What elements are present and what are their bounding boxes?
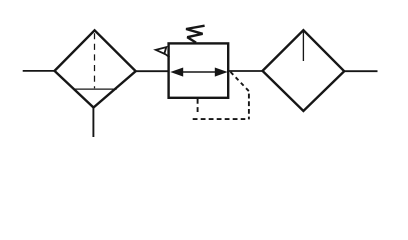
- wire outlet: [344, 70, 377, 72]
- pilot line bottom horizontal segment (dashed): [193, 118, 246, 120]
- filter F1 drain line: [92, 108, 94, 138]
- regulator R1 flow arrow shaft: [178, 71, 219, 73]
- wire regulator to lubricator: [228, 70, 263, 72]
- filter F1 element (dashed): [94, 33, 96, 88]
- regulator R1 spring: [186, 26, 205, 43]
- pilot line right vertical segment (dashed): [248, 91, 250, 120]
- lubricator L1 body: [263, 30, 345, 111]
- regulator R1 adjustment arrow shaft: [164, 53, 169, 57]
- regulator R1 body: [169, 43, 229, 97]
- wire filter to regulator: [136, 70, 170, 72]
- pilot line diagonal tap to outlet (dashed): [231, 72, 249, 91]
- regulator R1 adjustment arrowhead: [156, 47, 167, 54]
- regulator R1 flow arrowhead left: [170, 68, 183, 77]
- filter F1 body: [55, 30, 136, 107]
- lubricator L1 drip tube: [302, 32, 304, 62]
- pilot line vertical segment under regulator (dashed): [197, 99, 199, 114]
- filter F1 water baffle: [74, 88, 117, 90]
- regulator R1 flow arrowhead right: [215, 68, 228, 77]
- wire inlet: [23, 70, 56, 72]
